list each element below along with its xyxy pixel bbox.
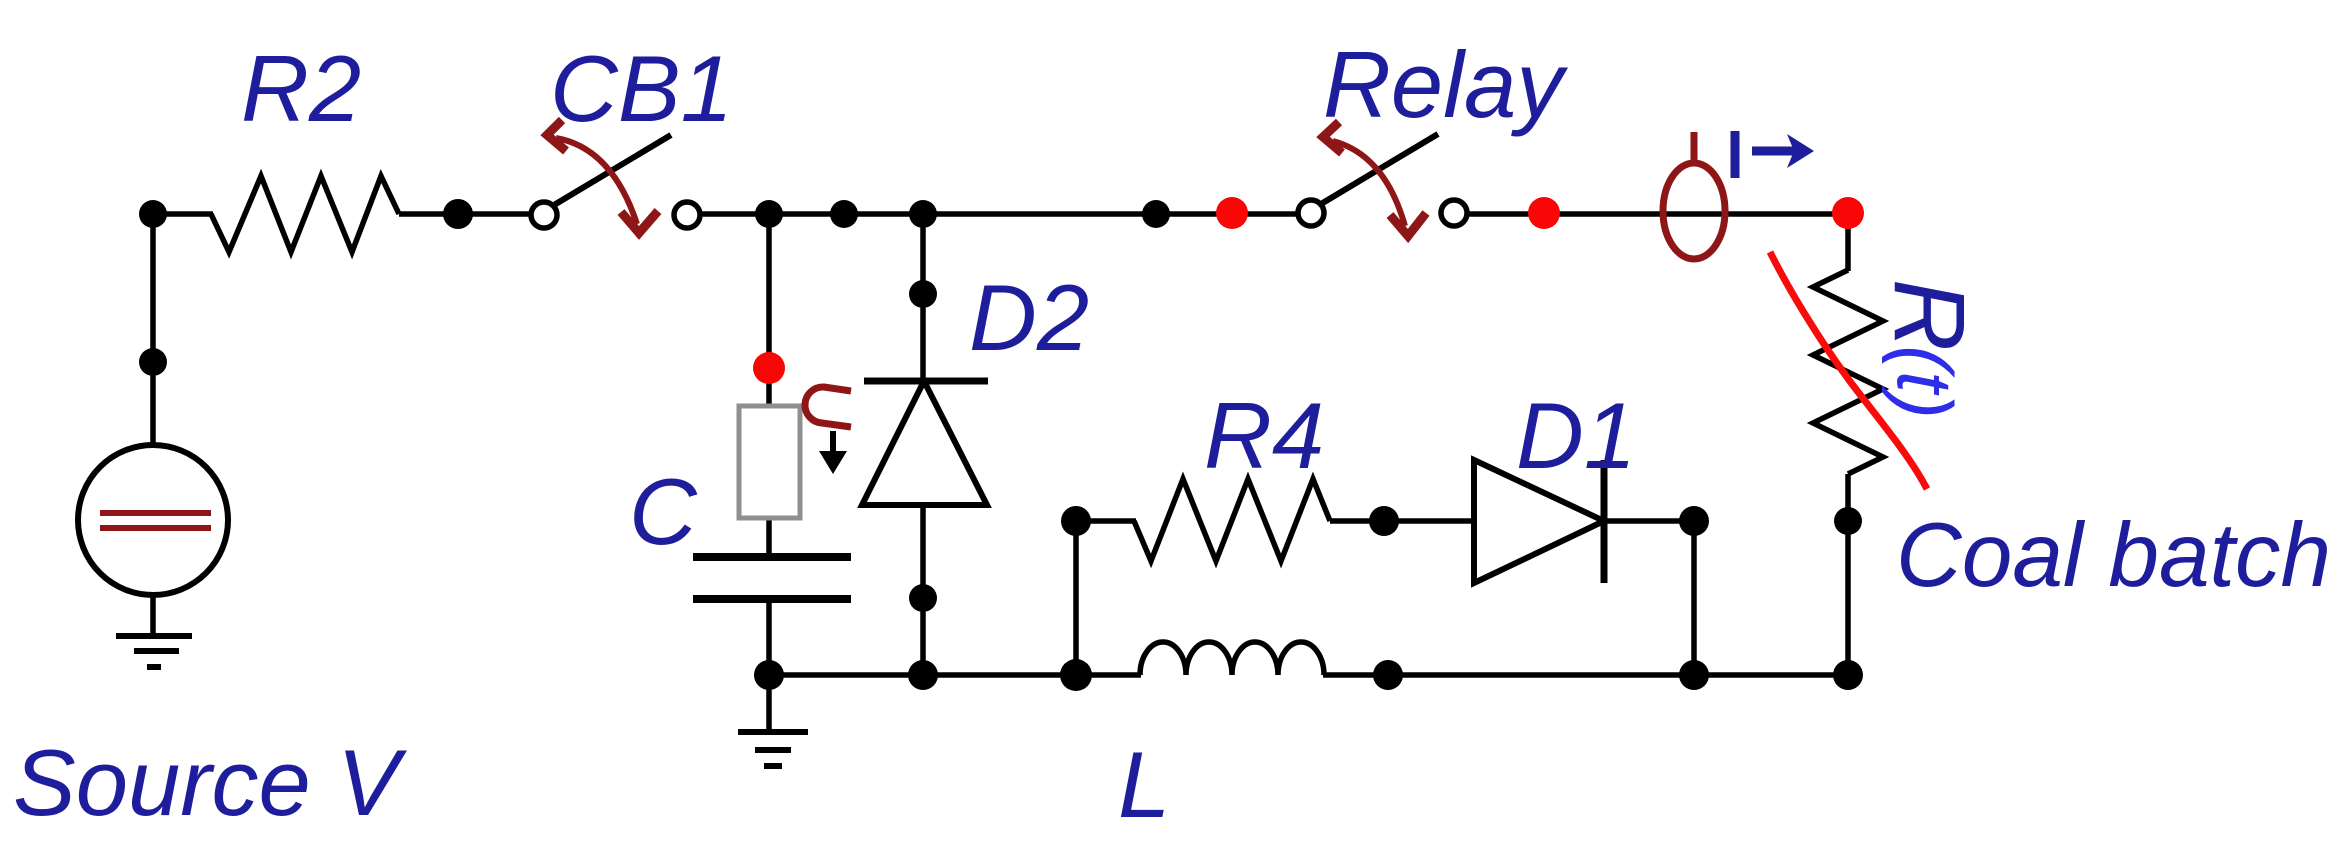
- resistor R4: [1134, 479, 1330, 561]
- resistor R(t) variable: [1813, 270, 1883, 474]
- current label I: [1731, 131, 1740, 178]
- red node after relay: [1528, 197, 1560, 229]
- node left top: [139, 200, 167, 228]
- wire C branch upper vertical: [766, 214, 772, 406]
- ground under source: [116, 636, 192, 667]
- svg-text:R4: R4: [1204, 383, 1324, 488]
- CB1 arrow head lower: [621, 211, 658, 233]
- inductor L: [1140, 642, 1324, 675]
- clamp probe hook near C (dark red): [805, 387, 851, 427]
- relay arrow head lower: [1390, 213, 1426, 236]
- resistor box above C (gray): [739, 406, 800, 518]
- current arrow: [1752, 147, 1797, 156]
- relay arrow head upper: [1323, 122, 1342, 153]
- clamp probe down arrow: [830, 431, 836, 454]
- node C bottom: [754, 660, 784, 690]
- CB1 trip arrow (dark red arc): [556, 138, 637, 224]
- source V circle: [78, 445, 228, 595]
- wire CB1 right contact to node B: [699, 211, 1304, 217]
- wire L/R4 left vertical: [1073, 521, 1079, 675]
- wire R4 to D1: [1330, 518, 1474, 524]
- current probe tick: [1691, 132, 1698, 163]
- red node before relay: [1216, 197, 1248, 229]
- node left mid: [139, 348, 167, 376]
- node L left bottom: [1060, 659, 1092, 691]
- wire C branch capacitor to bottom: [766, 600, 772, 675]
- svg-text:L: L: [1118, 732, 1170, 837]
- wire R(t) bottom vertical: [1845, 474, 1851, 675]
- wire R(t) top lead: [1845, 213, 1851, 271]
- svg-text:R2: R2: [241, 36, 361, 141]
- red nodes: [753, 197, 1864, 384]
- diode D1 triangle: [1474, 460, 1604, 583]
- ground stem under C: [766, 675, 772, 732]
- node before relay: [1142, 200, 1170, 228]
- relay actuate arrow (dark red arc): [1333, 141, 1405, 226]
- svg-text:C: C: [629, 459, 698, 564]
- node D1 out top: [1679, 506, 1709, 536]
- wire C branch rect to capacitor: [766, 518, 772, 555]
- node D2 lower: [909, 584, 937, 612]
- svg-text:(t): (t): [1881, 345, 1969, 419]
- diode D2 triangle: [862, 381, 987, 505]
- capacitor C plates: [693, 557, 851, 599]
- current probe ellipse: [1663, 163, 1725, 259]
- node after R4: [1369, 506, 1399, 536]
- ground under C: [738, 732, 808, 766]
- diode D2 cathode bar: [864, 378, 988, 385]
- resistor R2: [211, 176, 399, 252]
- node D2 top: [909, 200, 937, 228]
- wire R4 left lead: [1076, 518, 1136, 524]
- relay right contact: [1441, 200, 1467, 226]
- wire D2 branch upper vertical: [920, 214, 926, 381]
- node after L: [1373, 660, 1403, 690]
- red node at C top: [753, 352, 785, 384]
- source V inner bars: [100, 513, 211, 528]
- svg-text:Source V: Source V: [13, 730, 407, 835]
- ground stem under source: [150, 595, 156, 636]
- CB1 arrow head upper: [547, 120, 566, 151]
- relay left contact: [1298, 200, 1324, 226]
- wire D1 to node E: [1604, 518, 1694, 524]
- node after R2: [443, 199, 473, 229]
- svg-text:CB1: CB1: [550, 36, 733, 141]
- node L left top: [1061, 506, 1091, 536]
- wire bottom horizontal left: [769, 672, 1141, 678]
- switch CB1 left contact: [531, 202, 557, 228]
- wire D1 output vertical: [1691, 521, 1697, 675]
- wire D2 branch lower vertical: [920, 505, 926, 675]
- node D2 bottom: [908, 660, 938, 690]
- red node R(t) top: [1832, 197, 1864, 229]
- wire relay right contact to node D: [1466, 211, 1848, 217]
- svg-text:R: R: [1873, 279, 1985, 351]
- diode D1 cathode bar: [1601, 460, 1608, 583]
- node dots (black): [139, 199, 1863, 691]
- switch CB1 right contact: [674, 202, 700, 228]
- wire R2 to CB1: [399, 211, 532, 217]
- wire top-left horizontal (node A to R2): [153, 211, 213, 217]
- red variability curve over R(t): [1770, 252, 1927, 489]
- svg-text:D2: D2: [969, 265, 1089, 370]
- relay blade: [1321, 134, 1438, 204]
- wire left vertical source branch: [150, 214, 156, 447]
- node top wire small: [830, 200, 858, 228]
- node R(t) bottom: [1834, 507, 1862, 535]
- node C branch top: [755, 200, 783, 228]
- svg-text:Relay: Relay: [1323, 32, 1568, 137]
- svg-text:Coal batch: Coal batch: [1896, 505, 2331, 606]
- svg-text:D1: D1: [1516, 383, 1636, 488]
- node D1 out bottom: [1679, 660, 1709, 690]
- wire bottom horizontal right: [1323, 672, 1849, 678]
- switch CB1 blade: [554, 135, 671, 205]
- node bottom right corner: [1833, 660, 1863, 690]
- node D2 upper: [909, 280, 937, 308]
